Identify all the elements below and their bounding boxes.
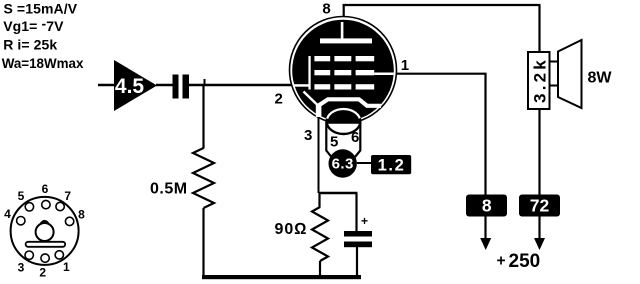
svg-text:+: + bbox=[361, 214, 368, 228]
svg-text:250: 250 bbox=[509, 251, 541, 272]
svg-text:7: 7 bbox=[64, 189, 71, 203]
svg-text:5: 5 bbox=[330, 134, 338, 151]
svg-text:3: 3 bbox=[18, 261, 25, 275]
svg-text:6: 6 bbox=[42, 182, 49, 196]
svg-text:2: 2 bbox=[275, 91, 283, 108]
svg-text:1: 1 bbox=[401, 57, 409, 74]
svg-text:4.5: 4.5 bbox=[115, 75, 145, 98]
svg-text:3.2k: 3.2k bbox=[530, 57, 549, 103]
svg-text:6.3: 6.3 bbox=[332, 156, 354, 173]
svg-text:1.2: 1.2 bbox=[378, 156, 406, 174]
svg-text:72: 72 bbox=[530, 196, 550, 216]
svg-text:4: 4 bbox=[4, 207, 11, 221]
svg-text:R i= 25k: R i= 25k bbox=[3, 37, 57, 53]
svg-text:8: 8 bbox=[78, 208, 85, 222]
svg-text:8: 8 bbox=[322, 1, 330, 18]
svg-text:Wa=18Wmax: Wa=18Wmax bbox=[2, 56, 84, 71]
svg-text:6: 6 bbox=[351, 129, 359, 146]
svg-text:0.5M: 0.5M bbox=[150, 181, 188, 198]
svg-text:Vg1= -7V: Vg1= -7V bbox=[3, 16, 64, 35]
svg-text:S =15mA/V: S =15mA/V bbox=[4, 0, 78, 16]
svg-text:+: + bbox=[497, 253, 506, 270]
svg-text:8: 8 bbox=[482, 196, 492, 216]
svg-text:5: 5 bbox=[18, 189, 25, 203]
svg-text:1: 1 bbox=[63, 260, 70, 274]
svg-text:3: 3 bbox=[304, 127, 312, 144]
svg-text:2: 2 bbox=[39, 266, 46, 280]
svg-text:90Ω: 90Ω bbox=[275, 221, 308, 238]
svg-text:8W: 8W bbox=[588, 70, 613, 87]
